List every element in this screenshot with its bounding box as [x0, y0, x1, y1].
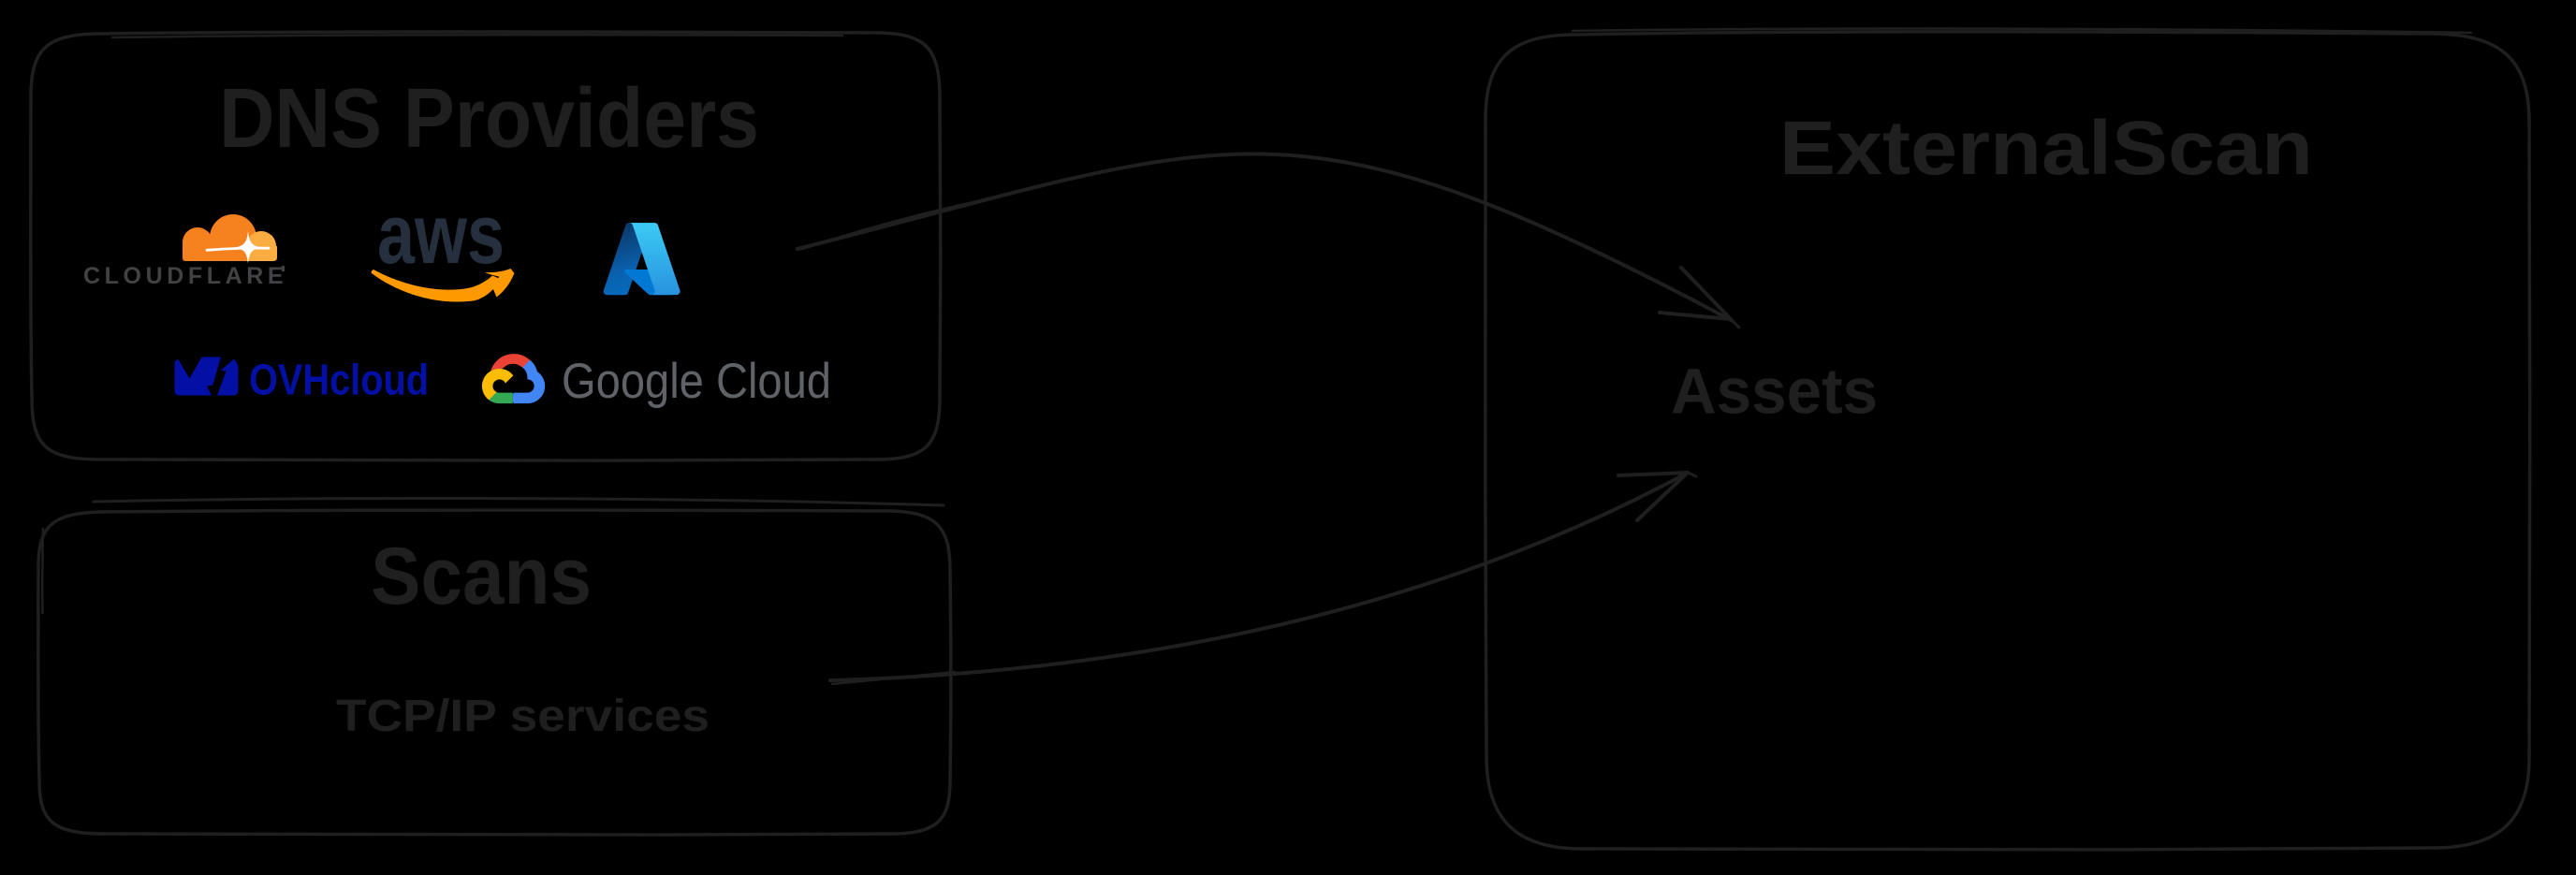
svg-text:ExternalScan: ExternalScan [1779, 106, 2313, 191]
svg-text:CLOUDFLARE: CLOUDFLARE [83, 263, 287, 289]
svg-text:TCP/IP services: TCP/IP services [336, 692, 710, 741]
svg-text:aws: aws [377, 188, 505, 282]
svg-text:DNS Providers: DNS Providers [219, 72, 759, 166]
svg-text:Google Cloud: Google Cloud [562, 354, 831, 409]
svg-text:Assets: Assets [1671, 356, 1878, 428]
svg-text:Scans: Scans [371, 532, 592, 621]
svg-text:OVHcloud: OVHcloud [249, 356, 429, 404]
